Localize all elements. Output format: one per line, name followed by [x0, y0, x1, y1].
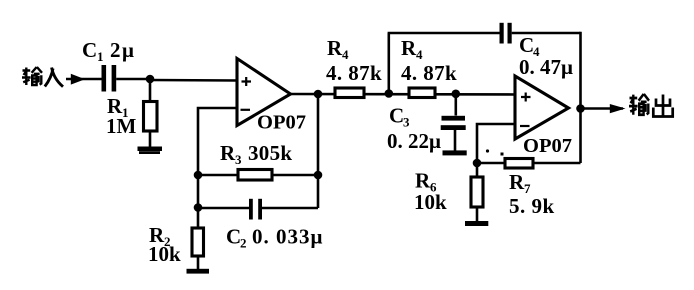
- node R5-C3 junction: [452, 90, 461, 99]
- wire U1 output down column: [317, 94, 320, 208]
- resistor R5: [409, 88, 435, 98]
- svg-text:C: C: [82, 38, 97, 62]
- wire output column down: [579, 32, 582, 163]
- U1 plus input mark: [242, 77, 252, 86]
- resistor R1: [144, 102, 158, 132]
- wire input to C1: [66, 78, 102, 81]
- label R6 10k: [414, 169, 447, 215]
- node C2 left junction: [194, 203, 203, 212]
- label C3 0.22u: [387, 104, 441, 154]
- node A junction: [146, 75, 155, 84]
- output arrowhead: [610, 104, 626, 113]
- ground below R1: [138, 147, 163, 155]
- wire R7 row left: [477, 162, 505, 165]
- wire R7 row right: [533, 162, 581, 165]
- U1 minus input mark: [241, 109, 251, 111]
- capacitor C3: [441, 116, 466, 130]
- svg-text:4: 4: [416, 47, 423, 62]
- node feedback right junction: [314, 171, 323, 180]
- svg-text:4. 87k: 4. 87k: [401, 61, 457, 85]
- node U2 output junction: [576, 104, 585, 113]
- label R3 305k: [220, 141, 292, 167]
- svg-text:1: 1: [97, 49, 104, 64]
- wire R2 to ground: [197, 256, 200, 270]
- op-amp U1: [237, 59, 291, 126]
- label R7 5.9k: [509, 170, 555, 218]
- svg-text:3: 3: [403, 115, 410, 130]
- capacitor C2: [249, 199, 262, 220]
- label R1 1M: [106, 94, 137, 138]
- svg-text:2μ: 2μ: [110, 38, 135, 62]
- label C2 0.033u: [226, 225, 323, 251]
- resistor R7: [505, 159, 533, 169]
- resistor R3: [238, 170, 272, 181]
- wire node A to op-amp U1 + input: [150, 79, 237, 82]
- svg-text:R: R: [509, 170, 525, 194]
- U2 plus input mark: [521, 93, 531, 102]
- svg-text:0. 22μ: 0. 22μ: [387, 129, 441, 153]
- svg-text:R: R: [327, 36, 343, 60]
- noise specks: [460, 149, 504, 155]
- svg-text:OP07: OP07: [257, 112, 306, 134]
- wire C4 top row left: [388, 32, 500, 35]
- label C1 2u: [82, 38, 135, 64]
- wire R6 to ground: [476, 207, 479, 222]
- ground below C3: [443, 150, 467, 155]
- ground below R6: [465, 221, 488, 226]
- wire C4 column up: [387, 33, 390, 94]
- node U1 output junction: [314, 90, 323, 99]
- svg-text:OP07: OP07: [523, 135, 572, 157]
- svg-text:10k: 10k: [414, 190, 447, 214]
- resistor R6: [471, 177, 483, 207]
- wire C4 top row right: [512, 32, 581, 35]
- svg-text:0. 47μ: 0. 47μ: [519, 55, 573, 79]
- svg-text:0. 033μ: 0. 033μ: [252, 225, 323, 249]
- wire U1 output row to U2 + input: [290, 93, 515, 96]
- ground below R2: [187, 269, 210, 274]
- U2 minus input mark: [520, 125, 530, 127]
- node feedback left junction: [194, 171, 203, 180]
- resistor R2: [192, 228, 204, 256]
- wire C2 row right: [262, 207, 318, 210]
- node OUT label 输出: [629, 94, 673, 117]
- svg-text:R: R: [401, 36, 417, 60]
- svg-text:C: C: [389, 104, 404, 128]
- op-amp U2: [515, 76, 569, 139]
- wire R1 to ground: [149, 131, 152, 147]
- svg-text:10k: 10k: [148, 242, 181, 266]
- resistor R4: [335, 88, 364, 98]
- wire R3 row left: [198, 174, 238, 177]
- label R4 4.87k: [326, 36, 382, 85]
- wire node A down to R1: [149, 79, 152, 102]
- wire C1 to node A: [116, 78, 150, 81]
- svg-text:4: 4: [342, 47, 349, 62]
- wire R3 row right: [272, 174, 318, 177]
- svg-text:2: 2: [240, 236, 247, 251]
- node IN label 输入: [22, 67, 63, 87]
- node R6-R7 junction: [473, 159, 482, 168]
- wire C2 row left: [198, 207, 249, 210]
- svg-text:R: R: [220, 141, 236, 165]
- svg-text:1M: 1M: [106, 114, 137, 138]
- svg-text:3: 3: [235, 152, 242, 167]
- label R2 10k: [148, 223, 181, 266]
- input arrowhead: [71, 74, 85, 85]
- svg-text:R: R: [415, 169, 431, 193]
- wire U2 output arrow: [581, 107, 624, 110]
- wire U1 minus input to feedback column: [198, 108, 237, 228]
- svg-text:C: C: [226, 225, 241, 249]
- capacitor C1: [102, 65, 117, 92]
- svg-text:4. 87k: 4. 87k: [326, 61, 382, 85]
- label R5 4.87k: [401, 36, 457, 85]
- wire C3 stub: [454, 94, 457, 116]
- wire C3 to ground: [454, 130, 457, 151]
- svg-text:5. 9k: 5. 9k: [509, 194, 555, 218]
- wire U2 minus to feedback junction: [477, 124, 515, 177]
- node R4-R5 junction: [385, 89, 394, 98]
- svg-text:C: C: [519, 33, 534, 57]
- capacitor C4: [500, 23, 512, 44]
- svg-text:305k: 305k: [248, 141, 292, 165]
- label C4 0.47u: [519, 33, 573, 79]
